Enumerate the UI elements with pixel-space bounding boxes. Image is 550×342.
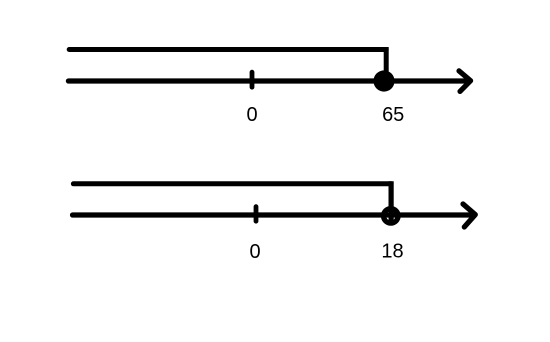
label 0 (number line 2) bbox=[249, 241, 260, 263]
svg-text:18: 18 bbox=[381, 241, 403, 263]
svg-text:0: 0 bbox=[249, 241, 260, 263]
wire: number line 2 axis bbox=[73, 212, 472, 217]
arrowhead of number line 1 bbox=[459, 71, 471, 92]
wire: vertical drop from bracket to point 65 bbox=[384, 47, 389, 78]
wire: top bracket ray of diagram 2 (horizontal overline with vertical drop through 18) bbox=[73, 181, 391, 186]
svg-text:65: 65 bbox=[382, 104, 404, 126]
wire: top bracket ray of diagram 1 (horizontal overline with vertical drop at 65) bbox=[69, 47, 386, 52]
label 65 (number line 1) bbox=[382, 104, 404, 126]
node: open circle point at 18 (drawn first so axis lines cross over it) bbox=[384, 209, 399, 224]
label 18 (number line 2) bbox=[381, 241, 403, 263]
wire: number line 1 axis bbox=[68, 78, 468, 83]
tick mark at 0 on number line 2 bbox=[254, 207, 259, 222]
arrowhead of number line 2 bbox=[463, 204, 475, 227]
tick mark at 0 on number line 1 bbox=[250, 72, 255, 87]
svg-text:0: 0 bbox=[246, 104, 257, 126]
node: closed (filled) point at 65 bbox=[373, 70, 394, 91]
label 0 (number line 1) bbox=[246, 104, 257, 126]
wire: vertical drop from bracket through point 18 bbox=[389, 181, 394, 225]
